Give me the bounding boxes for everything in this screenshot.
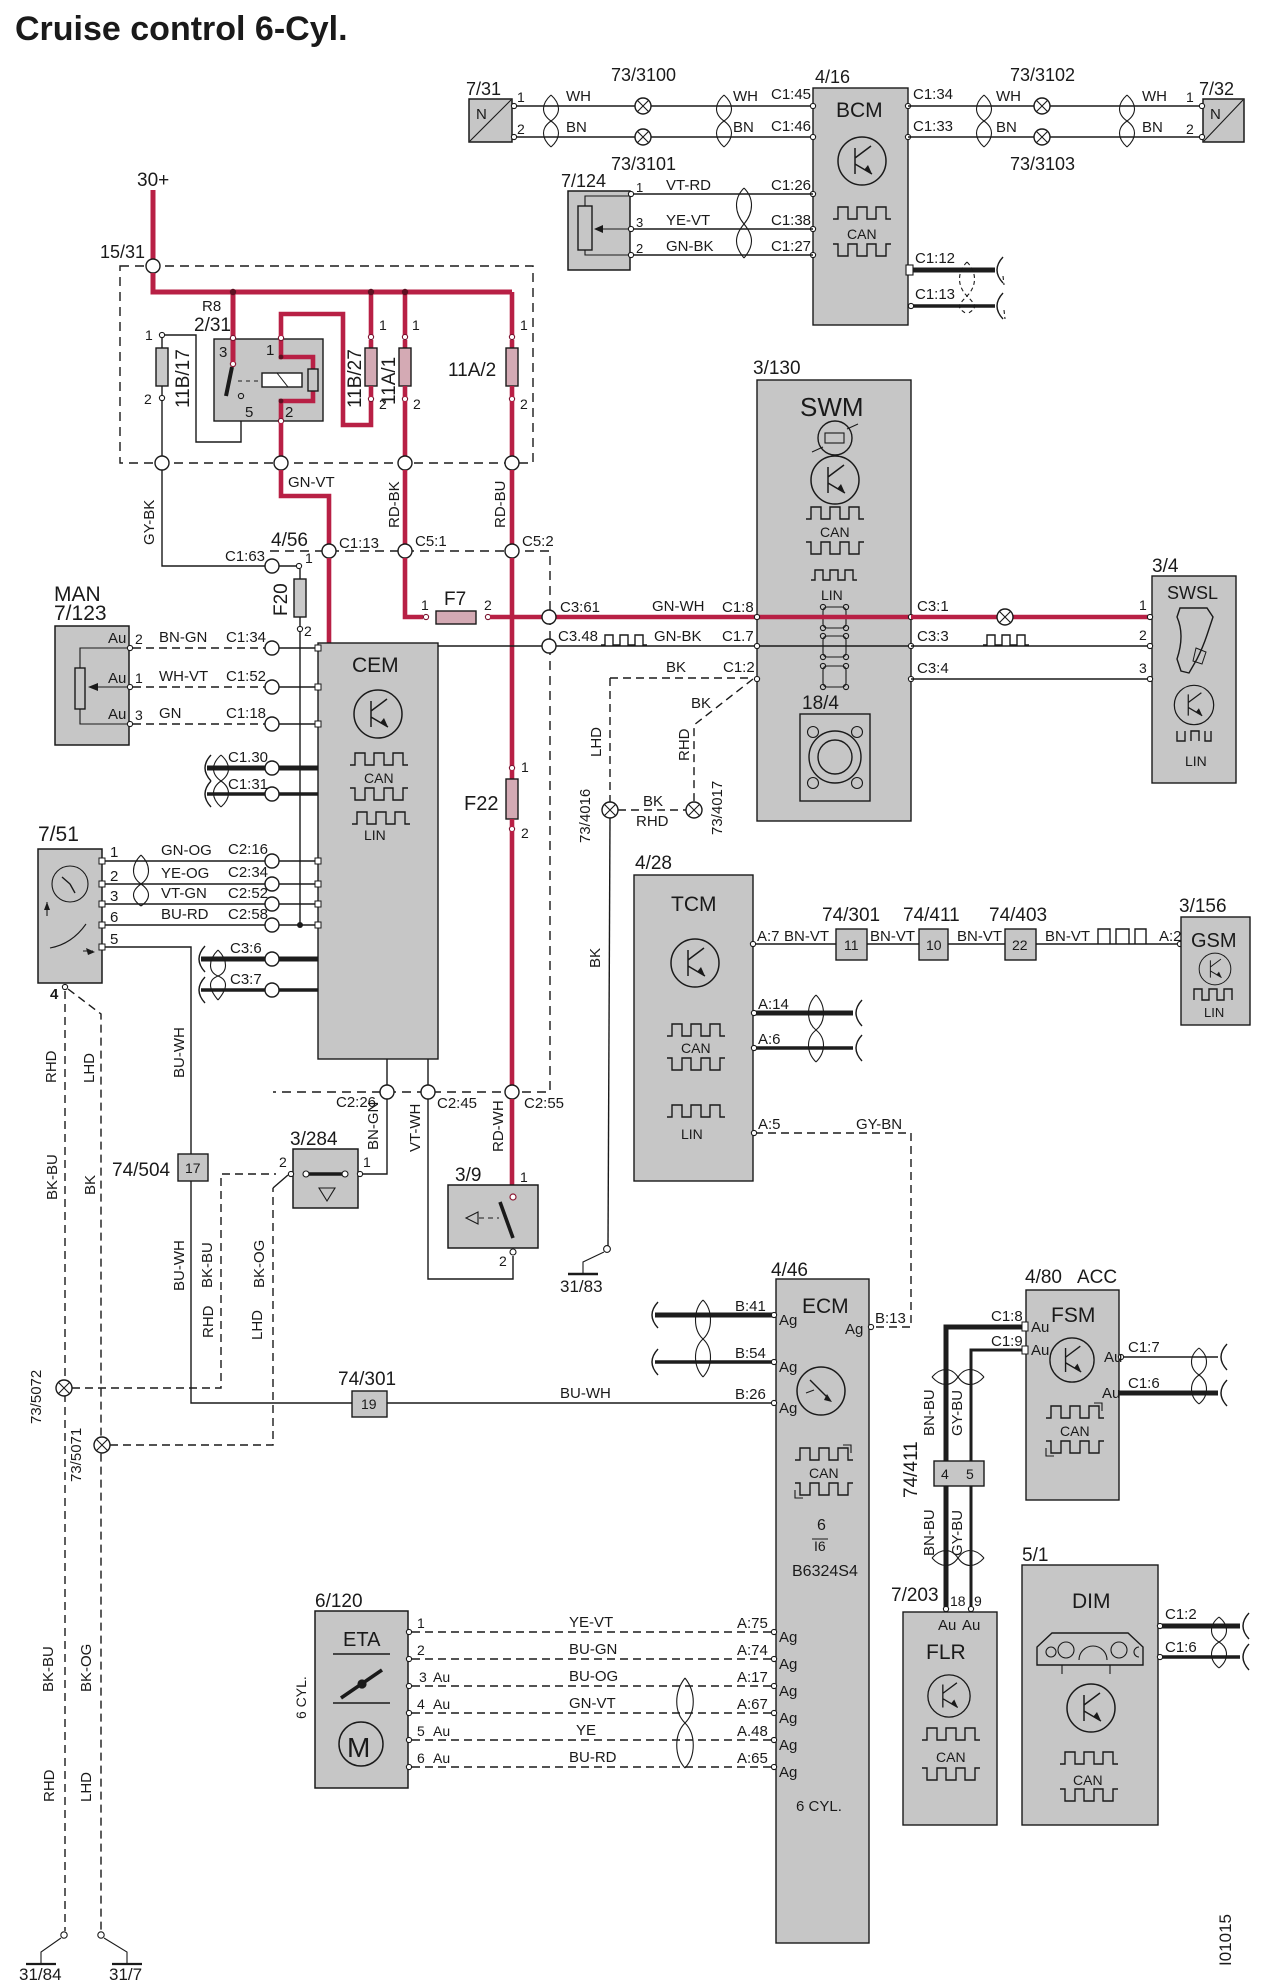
svg-text:4: 4 — [50, 986, 59, 1003]
twisted pair symbol — [932, 1551, 984, 1566]
dashed connector 4/56 outline — [270, 551, 550, 1092]
svg-text:4: 4 — [417, 1696, 425, 1712]
svg-text:6/120: 6/120 — [315, 1591, 363, 1612]
fuse 11A/2 — [448, 317, 528, 412]
svg-text:74/411: 74/411 — [901, 1441, 922, 1498]
svg-text:2: 2 — [285, 404, 293, 421]
svg-text:SWM: SWM — [800, 392, 864, 422]
svg-text:C3:6: C3:6 — [230, 940, 262, 957]
svg-text:CEM: CEM — [352, 654, 399, 677]
svg-text:2: 2 — [484, 597, 492, 613]
svg-text:Au: Au — [1102, 1385, 1120, 1402]
svg-text:RD-BK: RD-BK — [386, 481, 403, 528]
svg-text:Au: Au — [108, 630, 126, 647]
svg-text:2: 2 — [499, 1253, 507, 1269]
svg-text:GN-OG: GN-OG — [161, 842, 212, 859]
svg-text:BU-RD: BU-RD — [569, 1749, 617, 1766]
svg-text:1: 1 — [521, 759, 529, 775]
svg-text:73/4017: 73/4017 — [709, 781, 726, 835]
svg-text:A:17: A:17 — [737, 1669, 768, 1686]
wire dashed 73/5071 to LHD link — [110, 1188, 273, 1445]
wire BK solid from splice to ground 31/83 — [608, 818, 610, 1246]
fuse 11B/17 — [144, 327, 194, 408]
wire BN-GN dashed — [133, 647, 265, 649]
svg-text:LIN: LIN — [681, 1126, 703, 1142]
sensor 7/124 — [561, 171, 643, 270]
wire BU-WH to ECM B:26 — [387, 1402, 774, 1404]
wire CAN C1:31 thick — [207, 792, 265, 796]
svg-text:C1:18: C1:18 — [226, 705, 266, 722]
svg-text:BU-WH: BU-WH — [171, 1027, 188, 1078]
wire CAN TCM A:14 thick — [755, 1011, 853, 1016]
relay pin5 — [238, 393, 243, 398]
svg-text:DIM: DIM — [1072, 1590, 1111, 1613]
svg-text:73/5072: 73/5072 — [28, 1370, 45, 1424]
svg-text:C3:7: C3:7 — [230, 971, 262, 988]
svg-text:B:13: B:13 — [875, 1310, 906, 1327]
svg-text:5: 5 — [110, 931, 118, 948]
twisted pair symbol — [1212, 1617, 1227, 1668]
wire LHD dashed branch — [68, 989, 101, 1931]
svg-text:RD-BU: RD-BU — [492, 481, 509, 529]
svg-text:BK: BK — [691, 695, 711, 712]
connector 7/32 — [1186, 79, 1244, 142]
wire red branch to 11A/1 — [403, 292, 408, 337]
svg-text:1: 1 — [520, 1169, 528, 1185]
svg-text:C1:2: C1:2 — [1165, 1606, 1197, 1623]
svg-text:C3.48: C3.48 — [558, 628, 598, 645]
svg-text:1: 1 — [517, 89, 525, 105]
svg-text:Au: Au — [433, 1750, 450, 1766]
wire CAN C1:13 BCM stub — [913, 304, 995, 308]
wire YE-VT dashed ETA1-A:75 — [412, 1631, 774, 1633]
wire GN-BK CEM to SWM C1.7 — [438, 645, 757, 647]
wire F20 pin2 down to C2:58 row — [299, 632, 301, 925]
svg-text:GN-BK: GN-BK — [654, 628, 702, 645]
svg-text:C2:58: C2:58 — [228, 906, 268, 923]
variant link diagonal — [273, 1175, 288, 1188]
svg-text:BK-BU: BK-BU — [40, 1646, 57, 1692]
connector 74/411 pins 4 5 — [934, 1461, 984, 1486]
SWM black wire through C1.7-C3:3 — [757, 645, 911, 647]
svg-text:18/4: 18/4 — [802, 693, 839, 714]
square wave signal symbol — [601, 635, 647, 645]
svg-text:Au: Au — [433, 1723, 450, 1739]
svg-text:2: 2 — [1186, 121, 1194, 137]
splice 73/5072 — [56, 1380, 72, 1396]
twisted pair symbol — [1120, 95, 1135, 147]
wire BN 7/31 to BCM — [514, 136, 813, 138]
connector 74/301 pin 11 — [836, 929, 867, 960]
svg-text:Au: Au — [1104, 1349, 1122, 1366]
svg-text:LHD: LHD — [78, 1772, 95, 1802]
svg-text:73/4016: 73/4016 — [577, 789, 594, 843]
wire RD-BK red down to F7 — [405, 558, 423, 617]
connector 74/504 pin 17 — [178, 1154, 208, 1181]
wire FSM C1:6 stub right thick — [1119, 1391, 1218, 1396]
ECM B:13 pin right — [868, 1324, 873, 1329]
splice 73/4017 — [686, 802, 702, 818]
svg-text:CAN: CAN — [681, 1040, 711, 1056]
wire dashed 73/5072 to RHD link — [72, 1174, 276, 1388]
svg-text:A:67: A:67 — [737, 1696, 768, 1713]
svg-text:C3:3: C3:3 — [917, 628, 949, 645]
node GY-BK on dashed box — [155, 456, 169, 470]
svg-text:1: 1 — [520, 317, 528, 333]
svg-text:LHD: LHD — [249, 1310, 266, 1340]
svg-text:BK-BU: BK-BU — [44, 1154, 61, 1200]
svg-text:1: 1 — [145, 327, 153, 343]
svg-text:WH: WH — [996, 88, 1021, 105]
wire red branch to relay pin3 — [231, 292, 236, 337]
wire RD-BU red down to C5:2 — [510, 470, 515, 545]
wire 11B/17 pin2 down — [161, 401, 163, 462]
svg-text:2: 2 — [520, 396, 528, 412]
wire RD-BK red down to C5:1 — [403, 470, 408, 544]
wire GY-BU FSM C1:9 down to FLR — [971, 1350, 1024, 1607]
svg-text:5: 5 — [417, 1723, 425, 1739]
svg-text:C1.7: C1.7 — [722, 628, 754, 645]
relay contact lever — [230, 361, 235, 366]
SWM red wire through — [757, 615, 911, 620]
svg-text:31/83: 31/83 — [560, 1277, 603, 1296]
svg-text:BN-GN: BN-GN — [159, 629, 207, 646]
twisted pair symbol — [809, 995, 824, 1062]
node C2:45 — [421, 1085, 435, 1099]
wire red F22 down through C2:55 to 3/9 — [510, 831, 515, 1086]
svg-text:BN-BU: BN-BU — [921, 1389, 938, 1436]
svg-text:30+: 30+ — [137, 170, 169, 191]
wire GN-VT dashed ETA4-A:67 — [412, 1712, 774, 1714]
SWM button symbols — [820, 604, 848, 689]
wire FSM C1:7 stub right — [1121, 1356, 1218, 1358]
svg-text:BN: BN — [733, 119, 754, 136]
svg-text:B:26: B:26 — [735, 1386, 766, 1403]
svg-text:C1:38: C1:38 — [771, 212, 811, 229]
svg-text:RHD: RHD — [676, 728, 693, 761]
svg-text:VT-GN: VT-GN — [161, 885, 207, 902]
svg-text:A.48: A.48 — [737, 1723, 768, 1740]
svg-text:74/504: 74/504 — [112, 1160, 171, 1181]
wire BU-RD dashed ETA6-A:65 — [412, 1766, 774, 1768]
svg-text:22: 22 — [1012, 937, 1028, 953]
svg-text:YE-VT: YE-VT — [666, 212, 710, 229]
svg-text:C1:2: C1:2 — [723, 659, 755, 676]
svg-text:7/51: 7/51 — [38, 823, 79, 846]
svg-text:WH: WH — [733, 88, 758, 105]
svg-text:3: 3 — [419, 1669, 427, 1685]
svg-text:CAN: CAN — [820, 524, 850, 540]
svg-text:4/80: 4/80 — [1025, 1267, 1062, 1288]
wire GY-BN dashed TCM A:5 to ECM B:13 — [755, 1133, 911, 1327]
svg-text:6: 6 — [417, 1750, 425, 1766]
svg-text:C1:7: C1:7 — [1128, 1339, 1160, 1356]
svg-text:1: 1 — [110, 844, 118, 861]
wire BN-VT TCM A:7 to GSM A:2 — [753, 943, 836, 945]
svg-text:GY-BK: GY-BK — [141, 500, 158, 545]
svg-text:3/284: 3/284 — [290, 1129, 338, 1150]
svg-text:6: 6 — [817, 1517, 826, 1534]
svg-text:1: 1 — [266, 342, 274, 359]
svg-text:BK: BK — [643, 793, 663, 810]
wire CAN C3:7 thick — [201, 988, 265, 992]
twisted pair symbol (dashed) — [960, 262, 1006, 319]
node C1:13 — [322, 544, 336, 558]
wire DIM C1:2 thick stub — [1161, 1624, 1240, 1629]
twisted pair symbol — [214, 755, 229, 807]
svg-text:6 CYL.: 6 CYL. — [796, 1798, 842, 1815]
relay red stub pin3 — [231, 339, 236, 362]
svg-text:2: 2 — [135, 631, 143, 647]
relay internal red path pin1-resistor-pin2 — [281, 339, 313, 371]
svg-text:C1:45: C1:45 — [771, 86, 811, 103]
node GN-VT on dashed box — [274, 456, 288, 470]
wire red bus — [153, 273, 512, 292]
wire WH-VT dashed — [133, 686, 265, 688]
svg-text:Au: Au — [433, 1669, 450, 1685]
svg-text:C1:8: C1:8 — [722, 599, 754, 616]
svg-text:C1:63: C1:63 — [225, 548, 265, 565]
svg-text:F22: F22 — [464, 793, 498, 815]
connector 74/411 pin 10 — [919, 929, 948, 960]
svg-text:1: 1 — [1139, 597, 1147, 613]
svg-text:A:6: A:6 — [758, 1031, 781, 1048]
splice 73/3101 — [635, 129, 651, 145]
svg-text:2: 2 — [521, 825, 529, 841]
svg-text:CAN: CAN — [1060, 1423, 1090, 1439]
svg-text:A:14: A:14 — [758, 996, 789, 1013]
svg-text:6: 6 — [110, 909, 118, 926]
svg-text:2: 2 — [636, 241, 643, 256]
svg-text:YE: YE — [576, 1722, 596, 1739]
svg-text:4/56: 4/56 — [271, 530, 308, 551]
svg-text:BK: BK — [82, 1175, 99, 1195]
twisted pair symbol — [134, 855, 149, 906]
svg-text:2: 2 — [417, 1642, 425, 1658]
svg-text:C1:6: C1:6 — [1128, 1375, 1160, 1392]
relay pin terminals — [230, 335, 235, 340]
svg-text:WH: WH — [566, 88, 591, 105]
svg-text:GSM: GSM — [1191, 930, 1237, 952]
node 15/31 — [146, 259, 160, 273]
wire RD-WH red from C2:55 to 3/9 pin1 — [510, 1099, 515, 1194]
svg-text:B6324S4: B6324S4 — [792, 1563, 858, 1580]
svg-text:C2:45: C2:45 — [437, 1095, 477, 1112]
svg-text:1: 1 — [379, 317, 387, 333]
svg-text:C5:2: C5:2 — [522, 533, 554, 550]
wire YE-VT — [633, 228, 813, 230]
svg-text:Au: Au — [108, 706, 126, 723]
square wave signal symbol — [983, 635, 1029, 645]
svg-text:15/31: 15/31 — [100, 242, 145, 262]
svg-text:BK-BU: BK-BU — [199, 1242, 216, 1288]
svg-text:GY-BN: GY-BN — [856, 1116, 902, 1133]
ground 31/7 — [98, 1932, 142, 1980]
svg-text:BN: BN — [1142, 119, 1163, 136]
svg-text:BCM: BCM — [836, 99, 883, 122]
node C5:1 — [398, 544, 412, 558]
svg-text:LIN: LIN — [364, 827, 386, 843]
svg-text:F7: F7 — [444, 589, 466, 610]
svg-text:1: 1 — [1186, 89, 1194, 105]
svg-text:7/123: 7/123 — [54, 602, 107, 625]
svg-text:Ag: Ag — [779, 1400, 797, 1417]
node C1:63 — [265, 559, 279, 573]
svg-text:A:5: A:5 — [758, 1116, 781, 1133]
svg-text:5: 5 — [966, 1466, 974, 1482]
svg-text:BN: BN — [996, 119, 1017, 136]
svg-text:BK-OG: BK-OG — [251, 1240, 268, 1288]
svg-text:N: N — [476, 106, 487, 123]
wire WH BCM to 7/32 — [908, 105, 1203, 107]
twisted pair symbol — [211, 950, 226, 1000]
svg-text:2: 2 — [110, 868, 118, 885]
svg-text:I01015: I01015 — [1216, 1914, 1235, 1966]
svg-text:74/301: 74/301 — [822, 905, 880, 926]
relay R8 2/31 — [194, 298, 323, 421]
svg-text:A:65: A:65 — [737, 1750, 768, 1767]
svg-text:Au: Au — [962, 1617, 980, 1634]
twisted pair symbol — [737, 188, 752, 258]
svg-text:3/156: 3/156 — [1179, 896, 1227, 917]
svg-text:BN: BN — [566, 119, 587, 136]
svg-text:ETA: ETA — [343, 1629, 381, 1651]
CEM bottom pins to connector row — [386, 1059, 388, 1085]
wire VT-GN — [105, 903, 265, 905]
svg-text:N: N — [1210, 106, 1221, 123]
svg-text:ACC: ACC — [1077, 1267, 1117, 1288]
svg-text:2/31: 2/31 — [194, 315, 231, 336]
svg-text:LIN: LIN — [1185, 753, 1207, 769]
svg-text:Ag: Ag — [779, 1629, 797, 1646]
svg-text:CAN: CAN — [847, 226, 877, 242]
svg-text:Au: Au — [433, 1696, 450, 1712]
svg-text:CAN: CAN — [364, 770, 394, 786]
svg-text:73/3103: 73/3103 — [1010, 154, 1075, 174]
wire BN-GN from C2:26 to 3/284 pin1 — [363, 1099, 387, 1174]
svg-text:I6: I6 — [814, 1538, 826, 1554]
svg-text:C2:52: C2:52 — [228, 885, 268, 902]
svg-text:Cruise control 6-Cyl.: Cruise control 6-Cyl. — [15, 10, 348, 48]
svg-text:11B/27: 11B/27 — [345, 349, 366, 408]
svg-text:YE-OG: YE-OG — [161, 865, 209, 882]
svg-text:4/46: 4/46 — [771, 1260, 808, 1281]
svg-text:VT-WH: VT-WH — [407, 1104, 424, 1152]
svg-text:ECM: ECM — [802, 1295, 849, 1318]
svg-text:Au: Au — [1031, 1319, 1049, 1336]
svg-text:2: 2 — [144, 391, 152, 407]
wire 30+ red feed — [151, 190, 156, 259]
svg-text:B:41: B:41 — [735, 1298, 766, 1315]
wire RHD dashed from 7/51 pin4 to ground 31/84 — [64, 991, 66, 1931]
svg-text:R8: R8 — [202, 298, 221, 315]
svg-text:3/9: 3/9 — [455, 1165, 481, 1186]
twisted pair symbol — [1192, 1348, 1207, 1404]
svg-text:GN-BK: GN-BK — [666, 238, 714, 255]
svg-text:C1:34: C1:34 — [226, 629, 266, 646]
connector 7/31 — [466, 79, 525, 142]
svg-text:LIN: LIN — [1204, 1005, 1224, 1020]
svg-text:Au: Au — [938, 1617, 956, 1634]
svg-text:C3:4: C3:4 — [917, 660, 949, 677]
svg-text:BK-OG: BK-OG — [78, 1644, 95, 1692]
svg-text:BN-BU: BN-BU — [921, 1509, 938, 1556]
svg-text:31/84: 31/84 — [19, 1965, 62, 1980]
svg-text:19: 19 — [361, 1396, 377, 1412]
svg-text:11: 11 — [844, 937, 859, 953]
wire YE dashed ETA5-A:48 — [412, 1739, 774, 1741]
svg-text:1: 1 — [363, 1154, 371, 1170]
fuse 11B/27 — [345, 317, 387, 412]
node C2:55 — [505, 1085, 519, 1099]
svg-text:C1.30: C1.30 — [228, 749, 268, 766]
svg-text:GN: GN — [159, 705, 182, 722]
svg-text:LHD: LHD — [81, 1053, 98, 1083]
svg-text:BK: BK — [666, 659, 686, 676]
wire GY-BK down to C1:63 — [162, 470, 266, 566]
splice 73/3103 — [1034, 129, 1050, 145]
SWM pins — [754, 614, 759, 619]
svg-text:3: 3 — [1139, 660, 1147, 676]
wire 11A/2 pin2 down RD-BU — [510, 401, 515, 462]
svg-text:1: 1 — [412, 317, 420, 333]
wire red branch to 11A/2 — [510, 292, 515, 337]
svg-text:3: 3 — [219, 344, 227, 361]
svg-text:C1:31: C1:31 — [228, 776, 268, 793]
svg-text:17: 17 — [185, 1160, 201, 1176]
svg-text:LHD: LHD — [588, 727, 605, 757]
splice 73/3100 — [635, 98, 651, 114]
wire CAN ECM B:41 thick — [655, 1313, 773, 1318]
ECU BCM 4/16 — [810, 67, 910, 325]
svg-text:GN-WH: GN-WH — [652, 598, 705, 615]
svg-text:VT-RD: VT-RD — [666, 177, 711, 194]
svg-text:Au: Au — [108, 670, 126, 687]
svg-text:CAN: CAN — [809, 1465, 839, 1481]
svg-text:C1:13: C1:13 — [339, 535, 379, 552]
svg-text:BN-VT: BN-VT — [957, 928, 1002, 945]
svg-text:A:75: A:75 — [737, 1615, 768, 1632]
wire red hook 11B/27 pin2 to relay pin1 — [281, 314, 371, 425]
svg-text:C1:13: C1:13 — [915, 286, 955, 303]
svg-text:BN-VT: BN-VT — [1045, 928, 1090, 945]
svg-text:7/124: 7/124 — [561, 171, 606, 191]
node RD-BK on dashed box — [398, 456, 412, 470]
svg-text:Au: Au — [1031, 1342, 1049, 1359]
wire WH 7/31 to BCM — [514, 105, 813, 107]
svg-text:YE-VT: YE-VT — [569, 1614, 613, 1631]
wire VT-RD — [633, 193, 813, 195]
svg-text:CAN: CAN — [936, 1749, 966, 1765]
svg-text:Ag: Ag — [779, 1359, 797, 1376]
svg-text:BN-GN: BN-GN — [365, 1102, 382, 1150]
svg-text:WH-VT: WH-VT — [159, 668, 208, 685]
twisted pair symbol — [977, 95, 992, 147]
svg-text:BU-OG: BU-OG — [569, 1668, 618, 1685]
splice on red wire — [997, 609, 1013, 625]
svg-text:BK: BK — [587, 948, 604, 968]
fuse F20 — [271, 550, 313, 639]
svg-text:F20: F20 — [271, 583, 292, 616]
ground 31/83 — [560, 1246, 610, 1296]
svg-text:1: 1 — [417, 1615, 425, 1631]
wire BU-OG dashed ETA3-A:17 — [412, 1685, 774, 1687]
wire CAN C1:30 thick — [207, 766, 265, 771]
wire GN-BK — [633, 254, 813, 256]
svg-text:GN-VT: GN-VT — [569, 1695, 616, 1712]
wire red F7 to SWM C1:8 (GN-WH) — [490, 615, 757, 620]
svg-text:18: 18 — [950, 1593, 966, 1609]
